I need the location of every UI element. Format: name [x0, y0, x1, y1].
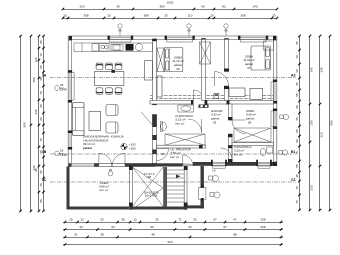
- bottom dimension lines: [63, 218, 283, 224]
- duct block bathroom corner: [199, 105, 209, 108]
- circle marker below doors: [108, 171, 113, 176]
- sofa: [73, 103, 85, 136]
- exterior top wall: [68, 36, 277, 42]
- svg-text:ker. pl.: ker. pl.: [234, 152, 243, 156]
- door to bathroom2: [221, 148, 233, 160]
- soba1 wardrobe X: [157, 48, 164, 72]
- soba1 bed: [164, 48, 183, 72]
- svg-text:VK: VK: [118, 29, 122, 33]
- svg-text:67: 67: [223, 225, 227, 229]
- svg-text:20: 20: [109, 168, 113, 172]
- svg-text:1849: 1849: [60, 153, 67, 157]
- svg-text:70: 70: [295, 186, 299, 190]
- svg-text:03: 03: [213, 121, 217, 125]
- svg-text:190: 190: [310, 120, 314, 125]
- svg-text:1020: 1020: [167, 0, 174, 4]
- svg-text:65: 65: [295, 117, 299, 121]
- svg-text:34: 34: [79, 225, 83, 229]
- svg-text:67: 67: [213, 218, 217, 222]
- vent circle V2: [187, 24, 191, 36]
- svg-text:60: 60: [295, 69, 299, 73]
- svg-text:45: 45: [295, 174, 299, 178]
- svg-text:55: 55: [295, 41, 299, 45]
- exterior left wall: [68, 36, 74, 167]
- svg-text:50: 50: [295, 139, 299, 143]
- drain circles outside porch: [209, 169, 221, 199]
- bathroom1 door: [188, 119, 202, 133]
- svg-text:48: 48: [151, 233, 155, 237]
- svg-text:25: 25: [107, 14, 111, 18]
- svg-text:355: 355: [32, 77, 36, 82]
- svg-text:38: 38: [100, 233, 104, 237]
- svg-text:91: 91: [74, 233, 78, 237]
- loggia room: [99, 181, 109, 192]
- door corridor to soba2: [215, 72, 229, 87]
- svg-text:25: 25: [155, 218, 159, 222]
- svg-text:388: 388: [143, 14, 148, 18]
- section line A: [42, 74, 296, 92]
- bathroom2 label: [234, 145, 251, 156]
- drain circle right side: [279, 114, 289, 155]
- svg-text:1C: 1C: [42, 178, 47, 182]
- soba1 label: [172, 56, 184, 72]
- svg-text:590: 590: [330, 120, 334, 125]
- svg-text:90: 90: [150, 225, 154, 229]
- svg-text:63: 63: [111, 225, 115, 229]
- svg-text:95: 95: [34, 168, 38, 172]
- svg-text:parket: parket: [83, 146, 92, 150]
- svg-text:C3: C3: [291, 178, 295, 182]
- svg-text:75: 75: [295, 200, 299, 204]
- top dimension line 2: [62, 14, 279, 20]
- svg-text:310: 310: [79, 5, 84, 9]
- svg-text:25: 25: [164, 14, 168, 18]
- top-right niche: [264, 41, 274, 50]
- svg-text:70: 70: [39, 53, 43, 57]
- soba2 label: [243, 55, 255, 71]
- dining table: [94, 63, 124, 94]
- vent circle V3: [224, 24, 228, 36]
- stair central stringer: [163, 167, 167, 207]
- svg-text:380: 380: [159, 5, 164, 9]
- svg-text:590: 590: [23, 122, 27, 127]
- armchair 1: [106, 105, 118, 116]
- svg-text:38: 38: [121, 218, 125, 222]
- svg-text:60: 60: [39, 170, 43, 174]
- svg-text:25: 25: [100, 218, 104, 222]
- tall cabinet right of kitchen: [145, 61, 153, 81]
- entrance door: [183, 155, 193, 166]
- vent circle V1: [118, 24, 122, 36]
- svg-text:+282: +282: [129, 147, 136, 151]
- porch wall right of stairs: [187, 166, 206, 208]
- svg-text:ker. pl.: ker. pl.: [171, 155, 180, 159]
- svg-text:05: 05: [248, 121, 252, 125]
- svg-text:345: 345: [34, 109, 38, 114]
- svg-text:345: 345: [320, 67, 324, 72]
- section line C: [42, 178, 296, 182]
- svg-text:68: 68: [39, 77, 43, 81]
- window sills top: [110, 39, 131, 42]
- svg-text:47: 47: [233, 218, 237, 222]
- svg-text:25: 25: [193, 218, 197, 222]
- svg-text:110: 110: [188, 14, 193, 18]
- entrance wall with door gap: [155, 163, 193, 166]
- svg-text:B1: B1: [291, 150, 295, 154]
- svg-text:1A: 1A: [42, 74, 47, 78]
- svg-text:VK: VK: [224, 29, 228, 33]
- soba2 dresser: [229, 88, 245, 97]
- svg-text:40: 40: [201, 5, 205, 9]
- svg-text:60: 60: [295, 105, 299, 109]
- interior wall living/center vertical: [152, 39, 156, 164]
- french doors living-loggia: [99, 153, 125, 166]
- svg-text:82: 82: [222, 5, 226, 9]
- svg-text:220: 220: [310, 185, 314, 190]
- loggia bottom wall: [67, 207, 130, 210]
- bathroom2 fixtures: [260, 147, 272, 156]
- bathroom1 fixtures: [160, 105, 205, 145]
- svg-text:/28: /28: [147, 175, 152, 179]
- svg-text:65: 65: [39, 104, 43, 108]
- svg-text:140: 140: [252, 5, 257, 9]
- shaft box corridor: [214, 94, 219, 99]
- svg-text:70: 70: [39, 91, 43, 95]
- svg-text:60: 60: [39, 117, 43, 121]
- svg-text:310: 310: [320, 132, 324, 137]
- elevation marker: [121, 143, 136, 151]
- svg-text:208: 208: [260, 218, 265, 222]
- soba2 bed: [251, 46, 271, 70]
- svg-text:40: 40: [116, 5, 120, 9]
- stair left diagonals: [132, 167, 163, 209]
- svg-text:358: 358: [83, 14, 88, 18]
- svg-text:16×17/28: 16×17/28: [145, 194, 158, 198]
- soba1 right wall: [202, 39, 206, 100]
- svg-text:520: 520: [167, 240, 172, 244]
- svg-text:358: 358: [240, 14, 245, 18]
- bottom wall right section: [193, 160, 277, 169]
- svg-text:25: 25: [63, 14, 67, 18]
- svg-text:70: 70: [39, 138, 43, 142]
- hodnik / soba3 wall: [228, 104, 233, 162]
- stair steps right flight: [167, 170, 184, 202]
- wall soba3 / bathroom2: [232, 143, 273, 146]
- bathroom1 label: [176, 114, 193, 125]
- left dimension lines: [19, 35, 45, 213]
- svg-text:12: 12: [80, 218, 84, 222]
- svg-text:ker. pl.: ker. pl.: [100, 188, 109, 192]
- svg-text:345: 345: [310, 67, 314, 72]
- svg-text:55: 55: [295, 93, 299, 97]
- svg-text:25: 25: [272, 14, 276, 18]
- right dimension lines: [295, 35, 334, 212]
- exterior stair block walls: [129, 166, 188, 210]
- svg-text:+0: +0: [212, 169, 216, 173]
- svg-text:70: 70: [295, 55, 299, 59]
- section line B: [42, 149, 296, 157]
- svg-text:VK: VK: [187, 29, 191, 33]
- svg-text:65: 65: [295, 82, 299, 86]
- svg-text:12: 12: [133, 218, 137, 222]
- exterior right wall: [271, 36, 277, 166]
- door ul.prostor to living: [157, 149, 169, 161]
- svg-text:1849: 1849: [60, 87, 67, 91]
- threshold marks: [201, 185, 204, 202]
- svg-text:A3: A3: [291, 74, 295, 78]
- svg-text:120: 120: [34, 57, 38, 62]
- svg-text:88: 88: [233, 233, 237, 237]
- svg-text:07: 07: [247, 66, 251, 70]
- door hodnik to soba3: [232, 120, 246, 134]
- living room bottom wall: [69, 163, 156, 167]
- svg-text:ker. pl.: ker. pl.: [176, 121, 185, 125]
- svg-text:95: 95: [39, 199, 43, 203]
- svg-text:71: 71: [178, 218, 182, 222]
- svg-text:70: 70: [39, 183, 43, 187]
- kitchen counter: [74, 43, 153, 52]
- svg-text:55: 55: [295, 164, 299, 168]
- top dimension line 1: [62, 0, 279, 10]
- svg-text:50: 50: [295, 129, 299, 133]
- door hodnik to corridor: [192, 90, 194, 101]
- svg-text:25: 25: [210, 14, 214, 18]
- living room label: [83, 135, 124, 150]
- svg-text:50: 50: [39, 65, 43, 69]
- hodnik label: [211, 109, 223, 125]
- svg-text:1B: 1B: [42, 150, 47, 154]
- bathroom1 bottom wall: [157, 145, 206, 149]
- ul prostor label: [161, 148, 192, 159]
- interior wall horizontal under top rooms: [150, 90, 273, 108]
- door living to hall diagonal leaf: [141, 112, 152, 125]
- svg-text:208: 208: [260, 225, 265, 229]
- coffee table: [89, 112, 101, 131]
- soba1 desk: [157, 76, 162, 97]
- soba2 closet bottom right: [250, 88, 263, 99]
- svg-text:25: 25: [69, 218, 73, 222]
- upper storey dashed line: [150, 94, 273, 96]
- soba3 bed X: [234, 128, 271, 142]
- svg-text:62: 62: [188, 225, 192, 229]
- loggia left wall: [67, 167, 70, 210]
- armchair 2: [106, 122, 118, 133]
- soba3 label: [246, 109, 256, 125]
- wardrobe X right of soba1: [200, 42, 211, 64]
- soba2 left wall: [224, 39, 229, 100]
- svg-text:55: 55: [39, 40, 43, 44]
- svg-text:06: 06: [176, 67, 180, 71]
